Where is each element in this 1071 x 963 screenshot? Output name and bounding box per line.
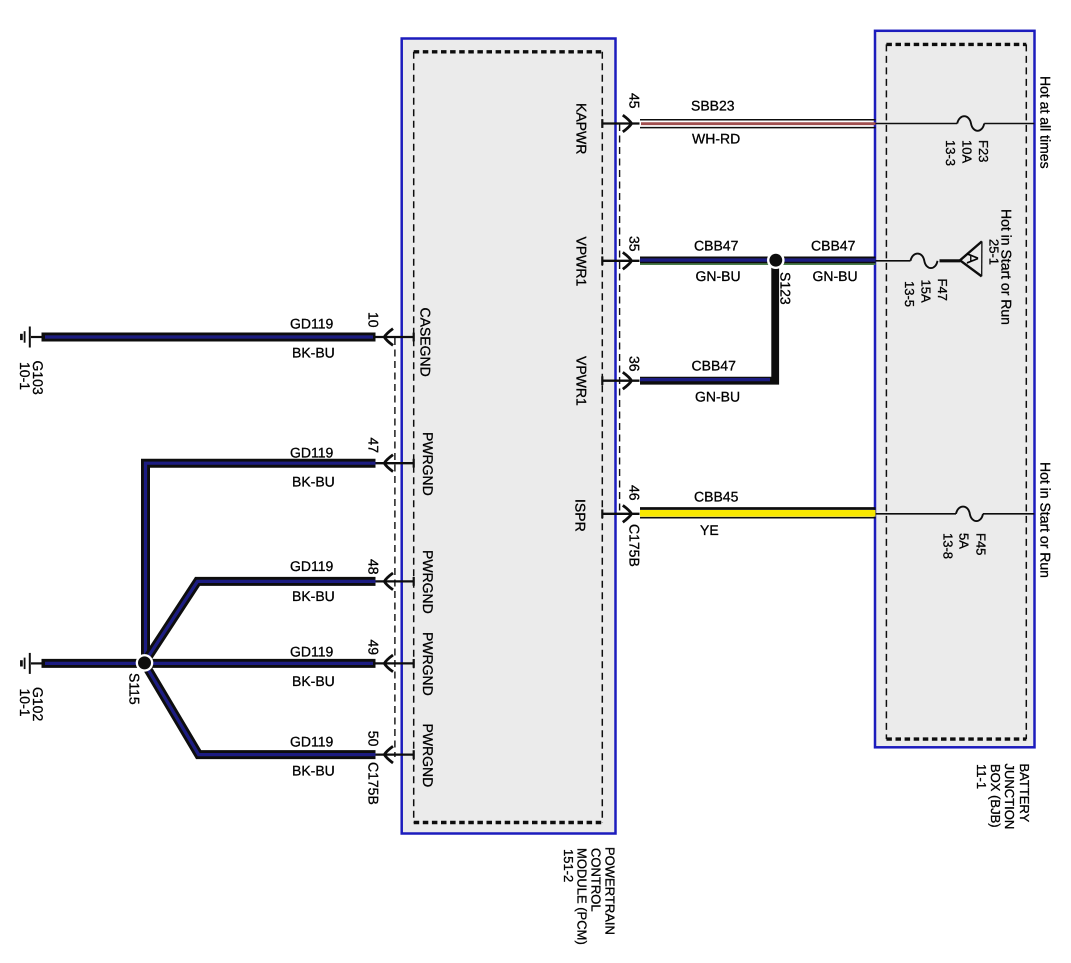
wire label GD119 pin47 (290, 445, 334, 461)
label PWRGND pin49 (420, 632, 436, 696)
banner Hot in Start or Run (VPWR) (999, 209, 1015, 325)
wire label GD119 pin48 (290, 558, 334, 574)
svg-text:C175B: C175B (366, 762, 382, 805)
wire label GN-BU (right of S123) (813, 268, 858, 284)
svg-text:13-8: 13-8 (941, 533, 956, 559)
pin number 47 (366, 438, 382, 454)
BJB inner dashed boundary (886, 44, 1026, 739)
pin 47 PWRGND stub and arrow (376, 455, 414, 472)
pin number 48 (366, 559, 382, 575)
wire label BK-BU pin47 (292, 474, 335, 490)
svg-text:GD119: GD119 (290, 734, 334, 750)
svg-text:GD119: GD119 (290, 558, 334, 574)
svg-text:S123: S123 (778, 272, 794, 305)
svg-text:46: 46 (627, 485, 643, 501)
PCM module box (POWERTRAIN CONTROL MODULE) (402, 39, 616, 834)
svg-text:BK-BU: BK-BU (292, 763, 335, 779)
svg-text:GN-BU: GN-BU (696, 268, 741, 284)
svg-text:KAPWR: KAPWR (574, 103, 590, 154)
svg-text:BK-BU: BK-BU (292, 673, 335, 689)
wire GD119 BK-BU (pin 10 to G103) (42, 333, 376, 342)
caption BATTERY JUNCTION BOX (BJB) 11-1 (974, 764, 1032, 830)
svg-text:BK-BU: BK-BU (292, 588, 335, 604)
svg-text:10: 10 (366, 312, 382, 328)
fuse F45 label (941, 533, 989, 559)
pin 49 PWRGND stub and arrow (376, 655, 414, 672)
wire GD119 BK-BU (pin 48 to S115) (144, 581, 375, 663)
battery junction box BJB (875, 31, 1035, 748)
wire CBB45 inside BJB (876, 513, 957, 515)
wire CBB47 inside BJB (876, 260, 911, 262)
svg-text:BK-BU: BK-BU (292, 345, 335, 361)
svg-text:S115: S115 (127, 673, 143, 705)
pin number 45 (627, 93, 643, 109)
svg-text:11-1: 11-1 (974, 764, 989, 789)
wire label SBB23 (691, 98, 735, 114)
wire SBB23 WH-RD (640, 120, 876, 128)
pin 35 VPWR1 stub and arrow (602, 252, 639, 269)
svg-text:BOX (BJB): BOX (BJB) (988, 764, 1003, 828)
connector label C175B left (366, 762, 382, 805)
wire label BK-BU pin48 (292, 588, 335, 604)
svg-text:48: 48 (366, 559, 382, 575)
pin 10 CASEGND stub and arrow (376, 329, 414, 346)
wire CBB47 GN-BU (pin 36 branch with vertical riser) (640, 258, 775, 381)
wire label BK-BU pin50 (292, 763, 335, 779)
pin 45 KAPWR stub and arrow (602, 115, 639, 132)
svg-text:ISPR: ISPR (573, 499, 589, 532)
svg-text:GN-BU: GN-BU (695, 389, 740, 405)
svg-text:F45: F45 (974, 533, 989, 555)
svg-text:CBB47: CBB47 (692, 358, 737, 374)
svg-text:A: A (963, 253, 980, 264)
svg-text:151-2: 151-2 (561, 849, 576, 882)
svg-text:PWRGND: PWRGND (420, 632, 436, 696)
fuse F45 5A (956, 507, 983, 522)
wire GD119 BK-BU (pin 50 to S115) (144, 663, 375, 755)
wire label BK-BU pin10 (292, 345, 335, 361)
svg-text:47: 47 (366, 438, 382, 454)
wire label WH-RD (692, 131, 740, 147)
fuse F23 label (943, 140, 991, 166)
label PWRGND pin50 (420, 724, 436, 788)
svg-text:PWRGND: PWRGND (420, 432, 436, 496)
svg-text:50: 50 (366, 731, 382, 747)
svg-text:5A: 5A (957, 533, 972, 549)
wire GD119 BK-BU (pin 49 through S115 to G102) (42, 659, 376, 668)
svg-text:JUNCTION: JUNCTION (1002, 764, 1017, 830)
pin 46 ISPR stub and arrow (602, 505, 639, 522)
pin number 50 (366, 731, 382, 747)
ground G103 (21, 327, 42, 348)
label PWRGND pin47 (420, 432, 436, 496)
svg-text:CONTROL: CONTROL (589, 848, 604, 912)
pin 50 PWRGND stub and arrow (376, 746, 414, 763)
wire label GN-BU (pin36) (695, 389, 740, 405)
svg-text:VPWR1: VPWR1 (574, 356, 590, 406)
wire label GD119 pin49 (290, 644, 334, 660)
svg-text:PWRGND: PWRGND (420, 550, 436, 614)
pin number 10 (366, 312, 382, 328)
svg-text:WH-RD: WH-RD (692, 131, 740, 147)
svg-text:SBB23: SBB23 (691, 98, 735, 114)
svg-text:Hot at all times: Hot at all times (1038, 76, 1054, 169)
wire label GD119 pin50 (290, 734, 334, 750)
svg-text:CBB45: CBB45 (694, 489, 739, 505)
fuse F47 label (902, 279, 950, 308)
fuse F23 10A (957, 116, 984, 131)
svg-text:BATTERY: BATTERY (1017, 764, 1032, 823)
label VPWR1 pin35 (574, 237, 590, 287)
wire label GD119 pin10 (290, 316, 334, 332)
splice S123 (767, 251, 785, 269)
svg-text:CASEGND: CASEGND (418, 308, 434, 377)
pin 36 VPWR1 stub and arrow (602, 372, 639, 389)
svg-text:10-1: 10-1 (17, 689, 33, 717)
svg-text:GD119: GD119 (290, 644, 334, 660)
banner Hot at all times (1038, 76, 1054, 169)
wire from fuse F47 to connector A (940, 259, 961, 262)
label CASEGND (418, 308, 434, 377)
connector label C175B right (627, 524, 643, 567)
caption POWERTRAIN CONTROL MODULE (PCM) 151-2 (561, 847, 618, 945)
pin 48 PWRGND stub and arrow (376, 573, 414, 590)
svg-text:POWERTRAIN: POWERTRAIN (603, 847, 618, 935)
svg-text:F47: F47 (935, 279, 950, 301)
wire label CBB45 (694, 489, 739, 505)
svg-text:BK-BU: BK-BU (292, 474, 335, 490)
svg-text:GD119: GD119 (290, 316, 334, 332)
pin number 46 (627, 485, 643, 501)
svg-text:13-3: 13-3 (943, 140, 958, 166)
svg-text:49: 49 (366, 640, 382, 656)
ground G102 (21, 653, 42, 674)
pin number 36 (627, 356, 643, 372)
svg-text:36: 36 (627, 356, 643, 372)
svg-text:CBB47: CBB47 (694, 238, 739, 254)
ground label G103 (17, 361, 46, 395)
wire label GN-BU (pin35 left) (696, 268, 741, 284)
svg-text:PWRGND: PWRGND (420, 724, 436, 788)
connector C175B dashed line (right side) (619, 124, 621, 514)
svg-text:VPWR1: VPWR1 (574, 237, 590, 287)
svg-text:10A: 10A (960, 140, 975, 163)
label KAPWR (574, 103, 590, 154)
wire to Hot at all times (984, 123, 1034, 125)
pin number 49 (366, 640, 382, 656)
svg-text:10-1: 10-1 (17, 362, 33, 390)
ground label G102 (17, 687, 46, 721)
wire label YE (700, 522, 719, 538)
label ISPR (573, 499, 589, 532)
svg-text:YE: YE (700, 522, 719, 538)
svg-text:F23: F23 (976, 140, 991, 162)
PCM inner dashed boundary (414, 52, 603, 823)
svg-text:13-5: 13-5 (902, 281, 917, 307)
svg-text:45: 45 (627, 93, 643, 109)
node S115 label (127, 673, 143, 705)
banner Hot in Start or Run (ISPR) (1038, 462, 1054, 578)
node S123 label (778, 272, 794, 305)
wire label BK-BU pin49 (292, 673, 335, 689)
svg-text:CBB47: CBB47 (811, 238, 856, 254)
connector C175B dashed line (left side) (394, 338, 396, 757)
wire label CBB47 (pin35 left) (694, 238, 739, 254)
svg-text:GN-BU: GN-BU (813, 268, 858, 284)
wire to Hot in Start or Run (983, 513, 1034, 515)
svg-text:GD119: GD119 (290, 445, 334, 461)
wire label CBB47 (right of S123) (811, 238, 856, 254)
svg-text:C175B: C175B (627, 524, 643, 567)
wire label CBB47 (pin36) (692, 358, 737, 374)
svg-text:Hot in Start or Run: Hot in Start or Run (1038, 462, 1054, 578)
splice S115 (136, 654, 154, 672)
wire SBB23 inside BJB (876, 123, 958, 125)
label VPWR1 pin36 (574, 356, 590, 406)
wire CBB47 GN-BU (pin 35 to BJB) (640, 260, 876, 264)
wire GD119 BK-BU (pin 47 to S115) (146, 463, 376, 663)
wire CBB45 YE (640, 509, 876, 518)
off-page connector triangle A 25-1 (960, 241, 982, 276)
pin number 35 (627, 236, 643, 252)
svg-text:Hot in Start or Run: Hot in Start or Run (999, 209, 1015, 325)
svg-text:35: 35 (627, 236, 643, 252)
fuse F47 15A (911, 254, 938, 269)
label PWRGND pin48 (420, 550, 436, 614)
label 25-1 (987, 239, 1002, 265)
svg-text:15A: 15A (919, 280, 934, 303)
